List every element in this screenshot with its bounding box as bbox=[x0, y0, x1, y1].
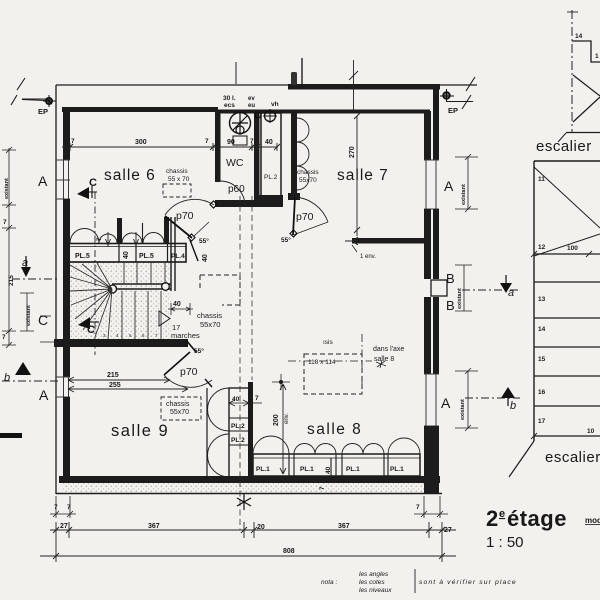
svg-text:PL.2: PL.2 bbox=[264, 174, 278, 181]
left wall segment 1 bbox=[63, 107, 70, 160]
section a marker right bbox=[462, 275, 518, 299]
section C arrow lower bbox=[78, 317, 99, 336]
svg-text:118 x 114: 118 x 114 bbox=[308, 359, 336, 366]
right wall inner segment 2 bbox=[424, 209, 431, 279]
door stop diamonds bbox=[188, 234, 195, 241]
stair plan tread numbers bbox=[538, 176, 546, 425]
door sector edge bbox=[293, 222, 328, 235]
svg-text:7: 7 bbox=[2, 334, 6, 341]
escalier section dash-dot axis bbox=[571, 10, 573, 133]
right wall outer segment 3 bbox=[433, 297, 439, 374]
eaves line top bbox=[56, 84, 477, 86]
salle 7 bottom wall arrow bbox=[345, 237, 358, 245]
splay jamb to closet bbox=[190, 240, 198, 261]
EP symbol left bbox=[38, 95, 56, 116]
svg-text:55x70: 55x70 bbox=[299, 177, 317, 184]
PL5 inner top line bbox=[68, 246, 186, 248]
svg-text:17: 17 bbox=[538, 418, 546, 425]
salle 7 left wall foot bbox=[288, 193, 300, 200]
svg-text:marches: marches bbox=[171, 331, 200, 340]
escalier section stringer diagonals bbox=[573, 75, 600, 122]
svg-text:B: B bbox=[446, 271, 455, 286]
svg-text:7: 7 bbox=[71, 138, 75, 145]
svg-text:27: 27 bbox=[444, 527, 452, 534]
bottom wall bbox=[59, 476, 440, 483]
vh vent circle bbox=[263, 109, 277, 123]
left wall segment 3 bbox=[63, 347, 70, 377]
stair newel double line bbox=[112, 284, 171, 289]
svg-text:sont à vérifier sur place: sont à vérifier sur place bbox=[419, 579, 517, 586]
newel post left bbox=[109, 285, 117, 293]
svg-text:16: 16 bbox=[538, 389, 546, 396]
axis star bottom bbox=[237, 494, 251, 510]
svg-text:55 x 70: 55 x 70 bbox=[168, 176, 190, 183]
svg-text:1: 1 bbox=[595, 53, 599, 60]
corridor divider thin bbox=[142, 223, 144, 243]
svg-text:PL.1: PL.1 bbox=[346, 466, 360, 473]
svg-text:A: A bbox=[39, 387, 49, 403]
svg-text:PL.5: PL.5 bbox=[75, 253, 90, 260]
section C arrow upper bbox=[77, 177, 97, 199]
stair direction triangle bbox=[159, 311, 170, 326]
stair plan winder diagonal 1 bbox=[534, 167, 600, 228]
PL5 dividers bbox=[119, 244, 168, 263]
survey dot bbox=[272, 374, 290, 390]
svg-text:dans l'axe: dans l'axe bbox=[373, 346, 404, 353]
chassis dashed box central bbox=[200, 275, 240, 305]
svg-text:14: 14 bbox=[575, 33, 583, 40]
title 2e etage bbox=[486, 506, 567, 531]
salle 9 closet front line bbox=[206, 388, 208, 477]
bottom dim 7 7 left bbox=[50, 496, 76, 518]
right window A2 bbox=[424, 374, 439, 426]
left wall segment 2 bbox=[63, 199, 70, 339]
svg-text:vh: vh bbox=[271, 101, 279, 108]
right margin dim chain bbox=[455, 154, 478, 431]
left margin dim chain bbox=[2, 147, 34, 348]
chassis windows arcs salle 7 wall bbox=[297, 118, 309, 190]
svg-text:40: 40 bbox=[325, 466, 332, 474]
svg-text:existant: existant bbox=[457, 288, 463, 309]
svg-text:13: 13 bbox=[538, 296, 546, 303]
door pivot diamond bbox=[290, 230, 297, 237]
top leader line x302 bbox=[301, 58, 303, 84]
section a marker left bbox=[12, 256, 58, 279]
left wall segment 4 bbox=[63, 397, 70, 483]
svg-text:eu: eu bbox=[248, 103, 255, 109]
svg-text:40: 40 bbox=[173, 301, 181, 308]
svg-text:C: C bbox=[87, 324, 95, 336]
bottom wall hatch band bbox=[62, 483, 437, 493]
svg-text:367: 367 bbox=[338, 523, 350, 530]
svg-text:55°: 55° bbox=[199, 237, 209, 245]
svg-text:7: 7 bbox=[255, 395, 259, 402]
svg-text:PL.4: PL.4 bbox=[171, 253, 185, 260]
WC door p60 arc bbox=[220, 181, 245, 206]
escalier section top tick bbox=[567, 11, 578, 13]
svg-text:chassis: chassis bbox=[297, 169, 319, 176]
right window A1 bbox=[424, 160, 439, 209]
svg-text:PL.1: PL.1 bbox=[300, 466, 314, 473]
svg-text:existant: existant bbox=[26, 305, 32, 326]
salle 9 door opposite jamb bbox=[205, 379, 212, 387]
WC shaft left wall bbox=[215, 110, 221, 182]
svg-text:A: A bbox=[441, 395, 451, 411]
salle 9 top wall bbox=[54, 339, 188, 347]
svg-text:ecs: ecs bbox=[224, 102, 235, 109]
dim 200 env vertical bbox=[280, 384, 286, 474]
svg-text:808: 808 bbox=[283, 548, 295, 555]
water heater circle 30l ecs bbox=[230, 113, 251, 146]
salle 7 bottom wall bbox=[352, 238, 427, 244]
bottom wall lower face line bbox=[56, 493, 442, 495]
svg-text:7: 7 bbox=[250, 138, 254, 145]
axis dash vertical 118 box bbox=[361, 334, 363, 394]
top wall thick over salle 7 bbox=[288, 84, 440, 90]
svg-text:40: 40 bbox=[265, 139, 273, 146]
right wall inner segment 3 bbox=[424, 297, 431, 374]
svg-text:A: A bbox=[38, 173, 48, 189]
left window 1 bbox=[56, 160, 70, 199]
corridor post wall bbox=[117, 218, 122, 244]
svg-text:C: C bbox=[89, 177, 97, 189]
bottom 808 dim line bbox=[40, 538, 456, 562]
svg-text:100: 100 bbox=[567, 245, 578, 252]
svg-text:255: 255 bbox=[109, 382, 121, 389]
svg-text:mod: mod bbox=[585, 516, 600, 525]
door p70 upper left leaf bbox=[165, 216, 192, 238]
svg-text:PL.2: PL.2 bbox=[231, 437, 245, 444]
top smudge blob bbox=[291, 72, 297, 85]
stair plan left line bbox=[533, 161, 535, 441]
newel post right bbox=[162, 283, 170, 291]
dim 40 salle 9 closet bbox=[229, 400, 249, 406]
PL2 upper closet box bbox=[261, 113, 281, 198]
svg-text:salle 7: salle 7 bbox=[337, 167, 389, 184]
stair fan rays bbox=[70, 263, 161, 339]
svg-text:55x70: 55x70 bbox=[200, 320, 220, 329]
bottom dim 7 right bbox=[414, 496, 448, 518]
svg-text:escalier: escalier bbox=[536, 138, 592, 155]
left window 2 bbox=[56, 377, 70, 397]
dashed box 118x114 bbox=[304, 354, 362, 394]
svg-text:55°: 55° bbox=[281, 236, 291, 244]
ev eu fixture bbox=[255, 112, 261, 118]
door p70 salle 7 arc bbox=[295, 197, 328, 222]
svg-text:C: C bbox=[38, 312, 48, 328]
corridor door stub wall bbox=[164, 217, 169, 244]
svg-text:367: 367 bbox=[148, 523, 160, 530]
section C dash-dot line bbox=[94, 192, 96, 355]
svg-text:27: 27 bbox=[60, 523, 68, 530]
svg-text:existant: existant bbox=[460, 399, 466, 420]
svg-text:215: 215 bbox=[107, 372, 119, 379]
svg-text:40: 40 bbox=[202, 254, 209, 262]
svg-text:300: 300 bbox=[135, 139, 147, 146]
bottom main dim line bbox=[50, 522, 456, 538]
svg-text:existant: existant bbox=[461, 184, 467, 205]
svg-text:2: 2 bbox=[486, 506, 499, 531]
svg-text:215: 215 bbox=[8, 275, 15, 286]
svg-text:WC: WC bbox=[226, 157, 244, 169]
break mark top-left slash 1 bbox=[11, 78, 48, 105]
stair area texture bbox=[70, 263, 171, 339]
EP symbol right bbox=[440, 89, 458, 115]
leader arrows onto closets bbox=[106, 232, 139, 247]
break mark top-right bbox=[446, 77, 475, 109]
section line stub bottom left bbox=[0, 433, 22, 438]
svg-text:200: 200 bbox=[273, 414, 280, 426]
svg-text:11: 11 bbox=[538, 176, 545, 183]
svg-text:les niveaux: les niveaux bbox=[359, 587, 392, 594]
stair plan detail top line bbox=[534, 160, 600, 162]
axis dash line left bbox=[239, 196, 241, 530]
salle 8 closet inner line bbox=[253, 457, 420, 459]
svg-text:nota :: nota : bbox=[321, 579, 337, 586]
svg-text:salle 9: salle 9 bbox=[111, 422, 169, 440]
svg-text:p60: p60 bbox=[228, 184, 245, 195]
top leader line x353 bbox=[353, 60, 355, 110]
section b marker left bbox=[2, 362, 58, 384]
svg-text:30 l.: 30 l. bbox=[223, 95, 236, 102]
tick on x353 bbox=[349, 71, 358, 80]
svg-text:p70: p70 bbox=[176, 210, 194, 222]
axis dash-dot horizontal bbox=[288, 360, 372, 362]
svg-text:b: b bbox=[4, 372, 10, 384]
svg-text:7: 7 bbox=[3, 219, 7, 226]
stair plan treads bbox=[534, 254, 600, 436]
right window B box bbox=[431, 280, 447, 296]
right wall bottom corner bbox=[424, 426, 439, 494]
shaft bottom wall bbox=[215, 200, 283, 207]
section b marker right bbox=[465, 387, 520, 412]
WC PL2 divider wall bbox=[254, 110, 260, 203]
svg-text:40: 40 bbox=[232, 396, 240, 403]
svg-text:ev: ev bbox=[248, 96, 255, 102]
divider wall salle 8 9 bbox=[248, 382, 253, 477]
svg-text:a: a bbox=[508, 287, 514, 299]
svg-text:7: 7 bbox=[416, 504, 420, 511]
svg-text:1 env.: 1 env. bbox=[360, 254, 376, 260]
svg-text:les angles: les angles bbox=[359, 571, 389, 578]
svg-text:les cotes: les cotes bbox=[359, 579, 385, 586]
chassis dashed box salle 9 bbox=[161, 397, 201, 420]
PL2 bottom corner bbox=[259, 195, 283, 201]
salle 8 closet row outline bbox=[253, 454, 420, 476]
stair right wall bbox=[171, 217, 175, 291]
svg-text:7: 7 bbox=[205, 138, 209, 145]
salle 8 closet arcs bbox=[253, 436, 420, 454]
svg-text:14: 14 bbox=[538, 326, 546, 333]
svg-text:270: 270 bbox=[349, 146, 356, 158]
svg-text:A: A bbox=[444, 178, 454, 194]
dim 270 vertical bbox=[354, 113, 360, 236]
svg-text:p70: p70 bbox=[296, 211, 314, 223]
top wall shaft and salle 7 inner bbox=[215, 110, 430, 114]
closet row PL5 outline bbox=[68, 244, 186, 263]
svg-text:env.: env. bbox=[284, 413, 290, 424]
svg-text:PL.1: PL.1 bbox=[390, 466, 404, 473]
leader 55 deg bbox=[194, 222, 209, 236]
svg-text:20: 20 bbox=[257, 524, 265, 531]
stair plan winder diagonal 2 bbox=[534, 234, 600, 256]
corridor arcs salle 6 bottom bbox=[70, 229, 164, 244]
C dim ticks bbox=[40, 316, 57, 342]
svg-text:EP: EP bbox=[38, 107, 48, 116]
svg-text:salle 8: salle 8 bbox=[307, 421, 362, 438]
svg-text:b: b bbox=[510, 400, 516, 412]
door p70 upper left arc bbox=[165, 199, 214, 215]
door p70 salle 7 leaf bbox=[293, 197, 295, 235]
axis dash line right bbox=[251, 196, 253, 380]
svg-text:40: 40 bbox=[123, 251, 130, 259]
salle 9 door splay jamb bbox=[186, 340, 196, 352]
svg-text:7: 7 bbox=[54, 504, 58, 511]
svg-text:étage: étage bbox=[507, 506, 567, 531]
dim 40 stairs right bbox=[168, 303, 193, 315]
svg-text:10: 10 bbox=[587, 428, 595, 435]
svg-text:salle 6: salle 6 bbox=[104, 167, 156, 184]
svg-text:chassis: chassis bbox=[166, 401, 190, 408]
escalier section bottom line bbox=[566, 132, 600, 134]
svg-text:90: 90 bbox=[227, 139, 235, 146]
svg-text:15: 15 bbox=[538, 356, 546, 363]
top dim line 7 300 7 90 7 40 bbox=[62, 143, 280, 151]
svg-text:1 : 50: 1 : 50 bbox=[486, 534, 524, 551]
svg-text:55x70: 55x70 bbox=[170, 409, 189, 416]
svg-text:EP: EP bbox=[448, 106, 458, 115]
escalier section steps bbox=[572, 41, 600, 62]
svg-text:PL.1: PL.1 bbox=[256, 466, 270, 473]
svg-text:chassis: chassis bbox=[197, 311, 222, 320]
salle 9 door leaf bbox=[164, 352, 190, 375]
salle 7 left wall bbox=[291, 110, 297, 199]
salle 9 door arc bbox=[164, 375, 212, 387]
svg-text:p70: p70 bbox=[180, 366, 198, 378]
svg-text:55°: 55° bbox=[194, 347, 204, 355]
svg-text:escalier: escalier bbox=[545, 449, 600, 466]
dim 255 salle 9 bbox=[68, 386, 188, 392]
outer boundary left wall face line bbox=[55, 85, 57, 494]
stair plan bottom diagonal bbox=[509, 441, 534, 477]
svg-text:e: e bbox=[499, 508, 505, 520]
stair upper flight treads bbox=[124, 262, 165, 284]
svg-text:PL.5: PL.5 bbox=[139, 253, 154, 260]
chassis dashed box salle 6 bbox=[163, 184, 191, 197]
eaves line 2 top-left bbox=[22, 100, 46, 101]
right wall inner segment 1 bbox=[424, 111, 431, 160]
top wall salle 6 bbox=[62, 107, 218, 112]
right wall outer segment 1 bbox=[433, 88, 439, 160]
svg-text:PL.2: PL.2 bbox=[231, 423, 245, 430]
salle 9 closet boxes bbox=[229, 388, 249, 477]
svg-text:existant: existant bbox=[4, 178, 10, 199]
axis star small bbox=[376, 360, 386, 368]
right wall outer segment 2 bbox=[433, 209, 439, 279]
svg-text:7: 7 bbox=[67, 504, 71, 511]
salle 8 closet dividers bbox=[289, 454, 388, 476]
salle 9 closet door arcs bbox=[208, 388, 230, 477]
top leader line x236 bbox=[235, 62, 237, 84]
svg-text:chassis: chassis bbox=[166, 168, 188, 175]
svg-text:ısis: ısis bbox=[323, 339, 334, 346]
dim 215 salle 9 bbox=[68, 377, 170, 383]
svg-text:B: B bbox=[446, 298, 455, 313]
stair enclosure top line bbox=[68, 261, 171, 263]
svg-text:12: 12 bbox=[538, 244, 546, 251]
